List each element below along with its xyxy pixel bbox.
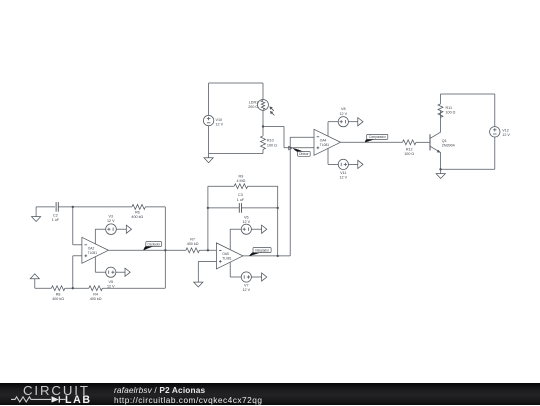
svg-text:OA4: OA4: [320, 138, 327, 142]
svg-text:400 kΩ: 400 kΩ: [187, 242, 199, 246]
svg-text:R10: R10: [267, 139, 274, 143]
svg-text:LDR1: LDR1: [249, 101, 258, 105]
svg-text:2N3904: 2N3904: [442, 144, 455, 148]
svg-text:400 kΩ: 400 kΩ: [131, 215, 143, 219]
svg-text:OA2: OA2: [88, 246, 95, 250]
svg-text:Divisor: Divisor: [299, 152, 308, 156]
svg-text:12 V: 12 V: [243, 288, 251, 292]
svg-text:V5: V5: [109, 280, 114, 284]
svg-text:V3: V3: [109, 214, 114, 218]
svg-text:100 Ω: 100 Ω: [404, 152, 414, 156]
svg-text:OA5: OA5: [222, 252, 229, 256]
svg-text:12 V: 12 V: [502, 133, 510, 137]
svg-text:400 kΩ: 400 kΩ: [90, 297, 102, 301]
svg-text:V10: V10: [216, 118, 223, 122]
svg-text:R8: R8: [56, 292, 61, 296]
svg-text:12 V: 12 V: [216, 123, 224, 127]
svg-text:R12: R12: [406, 147, 413, 151]
svg-text:1 uF: 1 uF: [237, 198, 245, 202]
svg-text:4 MΩ: 4 MΩ: [236, 179, 245, 183]
svg-text:Integrador: Integrador: [255, 248, 269, 252]
svg-text:12 V: 12 V: [340, 112, 348, 116]
svg-text:TL081: TL081: [222, 256, 232, 260]
svg-text:V8: V8: [341, 107, 346, 111]
svg-text:V12: V12: [502, 128, 509, 132]
svg-text:V11: V11: [340, 171, 346, 175]
svg-text:R11: R11: [446, 106, 453, 110]
svg-text:100 Ω: 100 Ω: [446, 110, 456, 114]
svg-text:R6: R6: [135, 210, 140, 214]
svg-text:C3: C3: [238, 193, 243, 197]
svg-text:R7: R7: [190, 238, 195, 242]
svg-text:R4: R4: [93, 292, 98, 296]
svg-text:Q1: Q1: [442, 139, 447, 143]
svg-text:V6: V6: [244, 216, 249, 220]
svg-text:12 V: 12 V: [107, 219, 115, 223]
svg-text:R9: R9: [239, 175, 244, 179]
svg-text:200 Ω: 200 Ω: [248, 105, 258, 109]
svg-text:12 V: 12 V: [340, 176, 348, 180]
svg-text:1 uF: 1 uF: [52, 218, 60, 222]
svg-text:Oscilador: Oscilador: [147, 242, 160, 246]
svg-text:12 V: 12 V: [243, 220, 251, 224]
svg-text:TL081: TL081: [320, 143, 330, 147]
svg-text:C2: C2: [53, 213, 58, 217]
svg-text:TL081: TL081: [88, 251, 98, 255]
svg-text:400 kΩ: 400 kΩ: [52, 297, 64, 301]
svg-text:Comparador: Comparador: [369, 135, 386, 139]
svg-text:V7: V7: [244, 284, 249, 288]
svg-text:100 Ω: 100 Ω: [267, 143, 277, 147]
